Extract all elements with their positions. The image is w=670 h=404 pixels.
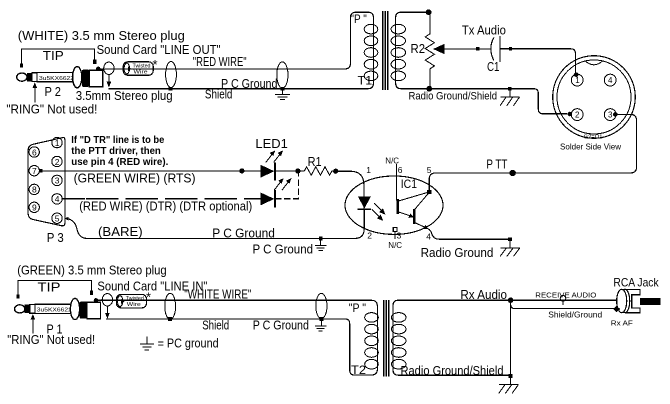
svg-text:"P ": "P "	[350, 12, 366, 26]
svg-text:R1: R1	[308, 154, 322, 169]
wire DTR from pin4 solid start	[63, 198, 86, 200]
node BARE ground dot	[319, 237, 323, 241]
svg-text:TIP: TIP	[38, 279, 61, 294]
LED1	[260, 162, 275, 180]
wire R1 to IC1 pin1	[336, 171, 364, 196]
node wiper dot	[476, 47, 479, 50]
svg-text:(BARE): (BARE)	[98, 224, 143, 239]
node pin3 dot	[613, 112, 618, 117]
wire C1 to DIN pin1	[500, 49, 575, 74]
cable shield oval 3	[277, 62, 288, 88]
IC1 internal LED	[358, 197, 371, 210]
svg-text:= PC ground: = PC ground	[158, 336, 219, 351]
DIN pin 1	[571, 74, 583, 86]
svg-text:9: 9	[32, 203, 37, 213]
svg-text:P TT: P TT	[486, 157, 507, 172]
svg-text:P C Ground: P C Ground	[212, 226, 275, 241]
wire WHITE WIRE into T2 primary and shield return	[96, 300, 377, 375]
node R1 right dot	[333, 169, 338, 174]
wire DTR optional dashed to R1 node	[275, 174, 298, 199]
svg-text:2: 2	[367, 230, 372, 240]
earth ground at shield	[275, 91, 290, 100]
svg-text:3: 3	[608, 111, 613, 120]
DIN pin 2	[571, 109, 583, 121]
T1 secondary loops	[391, 24, 405, 80]
svg-text:2: 2	[575, 111, 580, 120]
earth ground bottom	[315, 321, 326, 331]
svg-text:P C Ground: P C Ground	[253, 317, 309, 332]
IC1 pin3 stub	[393, 228, 397, 239]
DIN connector inner shell	[557, 60, 631, 134]
node Rx audio dot	[508, 297, 514, 303]
IC1 LED light arrows	[372, 203, 386, 221]
RCA jack body	[617, 289, 661, 313]
svg-text:5: 5	[55, 214, 60, 224]
svg-text:4: 4	[55, 194, 60, 204]
svg-text:"RING" Not used!: "RING" Not used!	[7, 332, 95, 347]
optocoupler IC1 body	[345, 176, 443, 234]
svg-text:(GREEN) 3.5 mm Stereo plug: (GREEN) 3.5 mm Stereo plug	[17, 262, 167, 277]
svg-text:use pin 4 (RED wire).: use pin 4 (RED wire).	[71, 157, 168, 168]
T2 secondary loops	[391, 313, 406, 369]
IC1 Q1 collector	[399, 192, 430, 201]
IC1 Q1 emitter	[399, 212, 414, 218]
svg-text:"WHITE WIRE": "WHITE WIRE"	[184, 286, 251, 301]
DIN pin 3	[604, 109, 616, 121]
T1 primary loops	[364, 24, 378, 80]
svg-text:Rx Audio: Rx Audio	[460, 287, 507, 302]
svg-text:G2=O1: G2=O1	[584, 134, 603, 140]
DIN pin 4	[604, 74, 616, 86]
LED2 optional DTR	[260, 190, 275, 207]
node pin2 dot	[568, 112, 573, 117]
node T2 ground dot	[509, 374, 513, 378]
svg-text:P 3: P 3	[47, 230, 64, 245]
svg-text:2: 2	[55, 157, 60, 167]
P3 pin 1	[52, 137, 62, 147]
TIP bracket	[20, 49, 97, 67]
P3 pin 8	[29, 184, 39, 195]
wire wiper to C1	[479, 48, 490, 50]
node radio ground mid dot	[508, 237, 512, 241]
T2 secondary winding Rx Audio wire	[393, 300, 617, 375]
svg-text:5: 5	[427, 165, 432, 175]
cable shield oval 3 bottom	[316, 293, 327, 318]
svg-text:Radio Ground/Shield: Radio Ground/Shield	[401, 363, 504, 378]
svg-text:3: 3	[397, 230, 402, 240]
P3 pin 9	[29, 202, 39, 213]
P3 pin 4	[52, 194, 62, 205]
svg-text:C1: C1	[487, 59, 500, 74]
P3 pin 3	[52, 175, 62, 186]
node collector dot	[427, 190, 431, 194]
svg-text:1: 1	[366, 165, 371, 175]
svg-text:Shield/Ground: Shield/Ground	[548, 309, 602, 319]
svg-text:Wire: Wire	[134, 70, 148, 76]
svg-text:P 2: P 2	[45, 84, 62, 99]
svg-text:N/C: N/C	[388, 241, 402, 250]
earth ground mid	[315, 240, 327, 250]
svg-text:"RING" Not used!: "RING" Not used!	[6, 102, 97, 117]
node tip junction dot	[96, 67, 100, 71]
TIP bracket bottom	[16, 280, 93, 298]
svg-text:Solder Side View: Solder Side View	[560, 142, 621, 151]
svg-text:(RED WIRE) (DTR) (DTR optiona: (RED WIRE) (DTR) (DTR optional)	[79, 199, 252, 214]
transformer T2 core	[384, 300, 389, 377]
cable jacket oval 2 bottom	[165, 293, 176, 319]
svg-text:*: *	[146, 290, 151, 305]
svg-text:If "D TR" line is to be: If "D TR" line is to be	[71, 135, 164, 146]
svg-text:3u5KX6622: 3u5KX6622	[37, 308, 72, 314]
svg-text:Shield: Shield	[202, 318, 229, 333]
svg-text:6: 6	[398, 165, 403, 175]
svg-text:*: *	[153, 57, 158, 72]
svg-text:8: 8	[32, 185, 37, 195]
IC1 Q2 collector	[415, 192, 429, 209]
earth ground legend symbol	[140, 337, 154, 350]
T1 secondary winding and radio ground wire	[396, 12, 568, 114]
IC1 Q2 emitter	[415, 223, 429, 230]
node PTT junction dot	[510, 170, 516, 176]
cable jacket oval 2	[166, 62, 177, 88]
node shield junction dot	[169, 87, 173, 91]
svg-text:(GREEN WIRE) (RTS): (GREEN WIRE) (RTS)	[74, 171, 196, 186]
shield drop arrow	[107, 75, 112, 88]
plug P2 3.5mm stereo	[17, 67, 103, 88]
svg-text:P C Ground: P C Ground	[253, 241, 314, 256]
P3 pin 5	[52, 213, 62, 224]
svg-text:"RED WIRE": "RED WIRE"	[193, 54, 247, 69]
plug P1 3.5mm stereo	[15, 298, 101, 319]
node shield ground dot bottom	[320, 317, 324, 321]
svg-text:TIP: TIP	[43, 48, 64, 63]
cable jacket oval 1 bottom	[102, 294, 112, 306]
IC1 pin2 lead to BARE line (part of path above)	[363, 197, 365, 210]
svg-text:the PTT driver, then: the PTT driver, then	[71, 146, 161, 157]
IC1 transistor Q2 base bar	[413, 209, 415, 224]
svg-text:IC1: IC1	[401, 177, 417, 191]
transformer T1 core	[383, 11, 388, 90]
node tip junction dot bottom	[94, 298, 98, 302]
svg-text:T2: T2	[351, 363, 366, 377]
svg-text:1: 1	[55, 138, 60, 148]
node C1 right dot	[509, 47, 512, 50]
wire BARE from pin5 S-curve and PC ground line	[67, 209, 364, 238]
chassis ground mid	[500, 241, 520, 256]
wire PTT pin3 to IC1 pin5	[429, 114, 636, 192]
wire DTR dashed	[86, 198, 260, 200]
twisted pair label box	[123, 57, 157, 76]
LED2 emission arrows	[274, 178, 291, 190]
ring arrow	[33, 82, 38, 102]
svg-text:R2: R2	[411, 41, 426, 56]
twisted pair label box bottom	[117, 290, 152, 309]
node radio ground dot	[508, 87, 512, 91]
LED1 emission arrows	[266, 150, 283, 162]
node pin7 dot	[39, 169, 42, 172]
wire shield vertical drop	[510, 300, 512, 376]
svg-text:3u5KX6622: 3u5KX6622	[39, 76, 74, 82]
R2 wiper arrow	[433, 44, 478, 54]
wire RED WIRE into T1 primary and shield return	[99, 12, 374, 89]
svg-text:Radio Ground/Shield: Radio Ground/Shield	[409, 91, 498, 103]
svg-text:4: 4	[608, 76, 613, 85]
svg-text:Wire: Wire	[127, 302, 141, 308]
svg-text:1: 1	[575, 76, 580, 85]
P3 pin 6	[29, 147, 39, 158]
IC1 pin6 lead	[395, 164, 397, 201]
svg-text:Radio Ground: Radio Ground	[421, 245, 494, 260]
wire IC1 pin4 to radio ground	[428, 229, 508, 240]
svg-text:"P ": "P "	[349, 301, 366, 315]
connector P3 DB9 outline	[28, 137, 65, 225]
svg-text:3: 3	[55, 176, 60, 186]
node RCA shield diamond	[613, 306, 620, 312]
resistor R1	[304, 167, 335, 175]
svg-text:N/C: N/C	[385, 156, 399, 165]
svg-text:4: 4	[426, 232, 431, 242]
P3 pin 2	[52, 156, 62, 167]
chassis ground bottom	[499, 378, 519, 393]
svg-text:RCA Jack: RCA Jack	[613, 275, 659, 289]
T2 primary loops	[365, 313, 379, 369]
wire Shield/Ground to RCA	[511, 304, 614, 308]
DIN keyway notch	[585, 61, 603, 65]
node RTS dot	[239, 168, 244, 173]
DIN connector outer shell	[553, 56, 636, 139]
potentiometer R2	[425, 9, 434, 91]
svg-text:Rx AF: Rx AF	[611, 319, 633, 328]
node shield ground dot	[281, 87, 285, 91]
svg-text:7: 7	[32, 166, 37, 176]
capacitor C1	[491, 36, 500, 62]
cable jacket oval 1	[104, 62, 114, 74]
svg-text:6: 6	[32, 147, 37, 157]
inline connector circle	[560, 295, 566, 305]
node R1 left dot	[295, 168, 300, 173]
svg-text:T1: T1	[358, 74, 373, 88]
wire RTS from pin7 to LED1	[42, 170, 260, 172]
node pin1 dot	[574, 72, 579, 77]
svg-text:(WHITE) 3.5 mm Stereo plug: (WHITE) 3.5 mm Stereo plug	[18, 28, 185, 43]
node shield junction dot bottom	[168, 317, 172, 321]
P3 pin 7	[29, 166, 39, 177]
svg-text:Tx Audio: Tx Audio	[462, 22, 506, 37]
IC1 transistor Q1 base bar	[397, 199, 399, 214]
ring arrow bottom	[31, 314, 36, 334]
chassis ground radio top	[500, 91, 520, 106]
wire LED1 to R1	[275, 170, 304, 172]
shield drop arrow bottom	[105, 306, 110, 319]
svg-text:LED1: LED1	[255, 136, 287, 151]
